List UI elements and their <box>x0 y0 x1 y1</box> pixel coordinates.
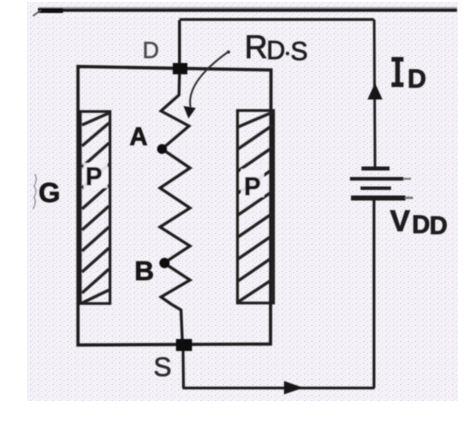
node B (tap dot on resistor) <box>159 258 169 268</box>
current arrow ID (points up) <box>368 83 383 100</box>
svg-text:R: R <box>245 29 268 65</box>
node D (junction square) <box>173 63 188 74</box>
svg-text:S: S <box>291 36 308 66</box>
decorative scan border line (top) <box>33 7 457 209</box>
svg-text:G: G <box>39 177 61 208</box>
svg-text:D: D <box>267 35 286 65</box>
wire: drain lead from node D up to top rail <box>178 20 181 63</box>
svg-text:P: P <box>244 173 261 201</box>
svg-text:D: D <box>408 64 427 94</box>
pointer arrow from RDS label to resistor <box>184 50 231 118</box>
label RDS <box>245 29 308 66</box>
channel outline box <box>78 67 271 346</box>
node S (junction square) <box>176 339 192 351</box>
svg-text:A: A <box>130 123 148 151</box>
label P (left gate) <box>84 163 108 188</box>
label ID <box>392 57 427 94</box>
svg-text:D: D <box>412 211 430 239</box>
svg-text:D: D <box>430 212 448 240</box>
wire: top rail from drain to battery branch <box>180 18 375 21</box>
wire: bottom rail from source to right rail <box>183 387 375 390</box>
arrow on source return wire (points right) <box>284 381 304 394</box>
label P (right gate) <box>241 169 264 197</box>
resistor RDS (zigzag channel resistance) <box>160 74 190 345</box>
gate region P right (hatched) <box>238 111 274 304</box>
svg-text:S: S <box>154 352 172 382</box>
svg-text:D: D <box>143 37 160 63</box>
wire: source lead from node S down to bottom rail <box>182 345 185 388</box>
label VDD <box>390 205 448 240</box>
wire: right rail lower segment (battery bottom to bottom rail) <box>373 200 376 388</box>
wire: right rail upper segment (through ID arrow to battery top) <box>373 20 376 168</box>
gate region P left (hatched) <box>80 112 110 304</box>
svg-text:P: P <box>86 163 103 191</box>
svg-text:B: B <box>135 256 155 286</box>
svg-text:V: V <box>390 205 410 238</box>
battery VDD (4 plates) <box>350 167 413 201</box>
node A (tap dot on resistor) <box>157 144 167 154</box>
